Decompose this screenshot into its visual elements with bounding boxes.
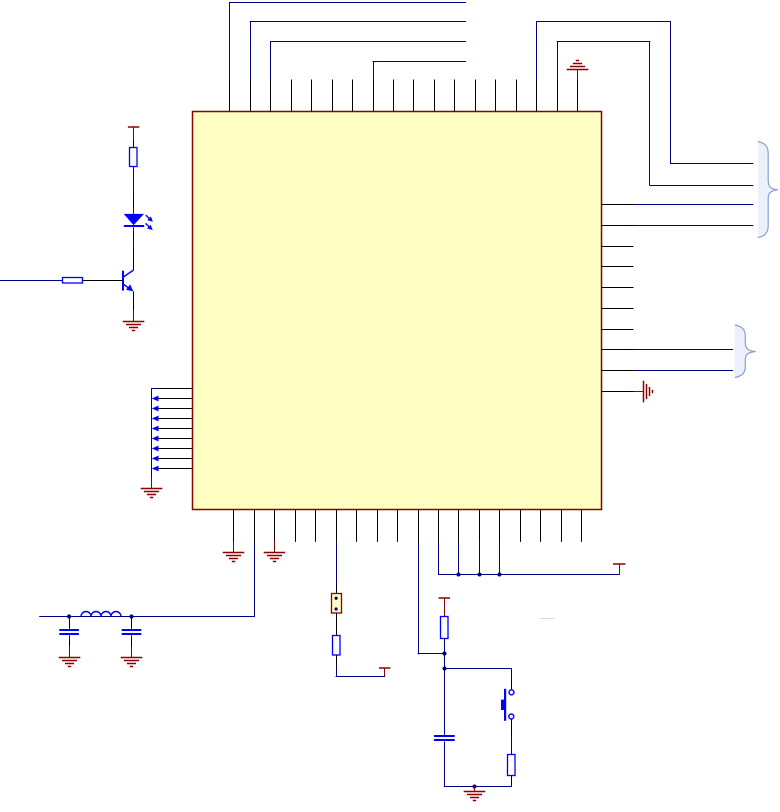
ground stem (bottom pin 3) xyxy=(274,541,276,552)
resistor R4 xyxy=(441,617,449,639)
pin top 1 xyxy=(229,80,231,112)
wire net A (top pin 1) xyxy=(229,2,231,80)
pin bottom 17 xyxy=(561,510,563,542)
pin right 7 xyxy=(602,329,634,331)
ground (top pin 18) xyxy=(567,61,589,70)
lead R3 down xyxy=(336,655,338,667)
node junction bus pin 12 xyxy=(457,573,461,577)
wire net D (top pin 8) xyxy=(373,62,375,80)
arrow left pin 9 xyxy=(152,466,159,472)
pin bottom 18 xyxy=(581,510,583,542)
pin top 4 xyxy=(291,80,293,112)
ground stem (bottom pin 1) xyxy=(233,541,235,552)
power stem (LED supply) xyxy=(133,127,135,140)
lead LED cathode xyxy=(133,227,135,230)
pin bottom 2 xyxy=(254,510,256,542)
pin top 11 xyxy=(434,80,436,112)
node junction reset 2 xyxy=(443,667,447,671)
switch SW1 contact bottom xyxy=(509,714,514,719)
wire button to R5 xyxy=(511,735,513,754)
lead Q1 emitter xyxy=(133,291,135,310)
ground (left bus) xyxy=(141,489,163,498)
wire right 9 xyxy=(634,370,734,372)
resistor R5 xyxy=(508,755,516,776)
power bar terminal (bottom bus) stem xyxy=(619,564,621,574)
arrow left pin 7 xyxy=(152,446,159,452)
wire net B (top pin 2) xyxy=(250,21,252,80)
arrow left pin 2 xyxy=(152,396,159,402)
wire reset node to button xyxy=(444,668,512,670)
capacitor C1 xyxy=(69,617,71,628)
wire faint gray artifact xyxy=(540,618,555,620)
pin left 9 xyxy=(158,468,193,470)
pin top 2 xyxy=(250,80,252,112)
lead Y1 to R3 xyxy=(336,613,338,635)
pin left 8 xyxy=(158,458,193,460)
inductor L1 xyxy=(81,612,121,617)
pin left 4 xyxy=(158,418,193,420)
node junction reset ground xyxy=(473,785,477,789)
wire right 1 xyxy=(634,204,754,206)
pin bottom 5 xyxy=(315,510,317,542)
crystal Y1 body xyxy=(332,594,342,614)
pin right 10 xyxy=(602,391,634,393)
IC U1 body xyxy=(193,112,602,510)
pin dot Y1 top xyxy=(335,597,338,600)
power bar terminal (crystal net) xyxy=(379,667,390,669)
pin top 13 xyxy=(475,80,477,112)
arrow left pin 6 xyxy=(152,436,159,442)
pin top 10 xyxy=(413,80,415,112)
LED D1 cathode bar xyxy=(124,225,144,227)
pin left 2 xyxy=(158,398,193,400)
power stem (reset pullup) xyxy=(444,598,446,616)
wire R3 to power terminal xyxy=(336,667,338,677)
wire bottom pin 14 to bus xyxy=(499,542,501,574)
wire left bus vertical xyxy=(151,388,153,477)
pin bottom 15 xyxy=(520,510,522,542)
pin bottom 13 xyxy=(479,510,481,542)
pin bottom 10 xyxy=(418,510,420,542)
brace bracket small xyxy=(735,325,756,378)
pin top 5 xyxy=(311,80,313,112)
power bar terminal (crystal net) stem xyxy=(384,668,386,677)
pin top 6 xyxy=(332,80,334,112)
pin right 6 xyxy=(602,308,634,310)
pin top 17 xyxy=(557,80,559,112)
wire LED to Q1 xyxy=(133,240,135,249)
ground stem (left bus) xyxy=(151,477,153,488)
ground (bottom pin 3) xyxy=(264,553,286,562)
LED D1 triangle xyxy=(124,214,144,225)
arrow left pin 4 xyxy=(152,416,159,422)
pin top 14 xyxy=(495,80,497,112)
wire bottom pin 12 to bus xyxy=(458,542,460,574)
pin left 6 xyxy=(158,438,193,440)
wire bottom pin 10 to reset node xyxy=(418,542,420,655)
pin left 3 xyxy=(158,408,193,410)
transistor Q1 collector diagonal xyxy=(123,270,133,277)
wire net C (top pin 3) xyxy=(270,41,272,80)
wire net F (top pin 17 to right side) xyxy=(557,42,559,80)
capacitor C2 xyxy=(131,617,133,628)
lead button top xyxy=(511,679,513,690)
wire reset node down to C3 xyxy=(444,669,446,734)
pin bottom 11 xyxy=(438,510,440,542)
pin top 12 xyxy=(454,80,456,112)
brace bracket large xyxy=(758,142,778,238)
wire R4 down xyxy=(444,639,446,669)
pin bottom 3 xyxy=(274,510,276,542)
ground (C2) xyxy=(121,658,143,667)
ground (Q1 emitter) xyxy=(123,322,145,331)
lead Q1 collector xyxy=(133,248,135,270)
wire R2 to LED xyxy=(133,167,135,199)
pin right 3 xyxy=(602,246,634,248)
pin bottom 16 xyxy=(540,510,542,542)
pin top 9 xyxy=(393,80,395,112)
wire bottom pin 2 to LC filter xyxy=(254,542,256,617)
pin bottom 6 xyxy=(336,510,338,542)
pin bottom 4 xyxy=(295,510,297,542)
ground stem (Q1 emitter) xyxy=(133,311,135,321)
ground (bottom pin 1) xyxy=(223,553,245,562)
pin bottom 12 xyxy=(458,510,460,542)
pin right 2 xyxy=(602,225,634,227)
transistor Q1 emitter arrow xyxy=(126,284,133,291)
pin bottom 8 xyxy=(377,510,379,542)
pin right 8 xyxy=(602,349,634,351)
node junction bus pin 13 xyxy=(478,573,482,577)
wire right 2 xyxy=(634,225,754,227)
LED emission arrow 1 xyxy=(146,215,149,218)
pin left 7 xyxy=(158,448,193,450)
lead to crystal Y1 xyxy=(336,585,338,594)
ground stem (C1) xyxy=(69,647,71,658)
lead to R2 xyxy=(133,140,135,147)
switch SW1 actuator xyxy=(504,689,506,721)
lead LED anode xyxy=(133,199,135,209)
ground stem (right pin 10) xyxy=(634,391,644,393)
wire bottom pin 13 to bus xyxy=(479,542,481,574)
lead C2 to ground xyxy=(131,639,133,647)
power bar terminal (reset pullup) xyxy=(439,597,451,599)
ground stem (C2) xyxy=(131,647,133,658)
pin bottom 14 xyxy=(499,510,501,542)
power bar terminal (LED supply) xyxy=(128,126,139,128)
resistor R3 xyxy=(333,636,341,656)
pin right 1 xyxy=(602,204,634,206)
node junction reset 1 xyxy=(443,652,447,656)
wire reset bottom xyxy=(444,786,512,788)
pin top 3 xyxy=(270,80,272,112)
wire bottom pin 11 bus xyxy=(438,542,440,575)
capacitor C3 xyxy=(444,733,446,736)
wire button top xyxy=(511,669,513,679)
power bar terminal (bottom bus) xyxy=(613,563,626,565)
node junction bus pin 14 xyxy=(498,573,502,577)
pin dot Y1 bottom xyxy=(335,607,338,610)
wire base input xyxy=(0,280,62,282)
resistor R2 xyxy=(130,148,138,167)
resistor R1 xyxy=(63,278,83,284)
pin top 8 xyxy=(373,80,375,112)
wire left bus corner to pin 1 xyxy=(151,388,158,390)
pin left 1 xyxy=(158,388,193,390)
pin right 5 xyxy=(602,287,634,289)
pin bottom 7 xyxy=(356,510,358,542)
node junction LC left xyxy=(67,614,71,618)
wire net E (top pin 16 to right side) xyxy=(536,21,538,80)
pin right 9 xyxy=(602,370,634,372)
arrow left pin 3 xyxy=(152,406,159,412)
pin top 18 xyxy=(577,80,579,112)
switch SW1 contact top xyxy=(509,690,514,695)
lead C1 to ground xyxy=(69,639,71,647)
pin bottom 9 xyxy=(397,510,399,542)
lead button bottom xyxy=(511,719,513,735)
arrow left pin 5 xyxy=(152,426,159,432)
ground (C1) xyxy=(59,658,81,667)
lead R1 to Q1 base xyxy=(83,280,123,282)
pin bottom 1 xyxy=(233,510,235,542)
transistor Q1 base bar xyxy=(122,271,124,291)
lead R5 down xyxy=(511,776,513,787)
wire C3 to bottom xyxy=(444,745,446,787)
arrow left pin 8 xyxy=(152,456,159,462)
node junction LC right xyxy=(129,614,133,618)
pin left 5 xyxy=(158,428,193,430)
pin top 16 xyxy=(536,80,538,112)
pin right 4 xyxy=(602,266,634,268)
wire right 8 xyxy=(634,349,734,351)
pin top 15 xyxy=(516,80,518,112)
wire bottom pin 6 down xyxy=(336,542,338,585)
ground stem (top pin 18) xyxy=(577,70,579,81)
pin top 7 xyxy=(352,80,354,112)
ground (right pin 10) xyxy=(644,381,653,403)
ground (reset) xyxy=(464,792,486,801)
transistor Q1 emitter diagonal xyxy=(123,284,132,290)
LED emission arrow 2 xyxy=(146,223,149,226)
ground stem (reset) xyxy=(474,786,476,792)
